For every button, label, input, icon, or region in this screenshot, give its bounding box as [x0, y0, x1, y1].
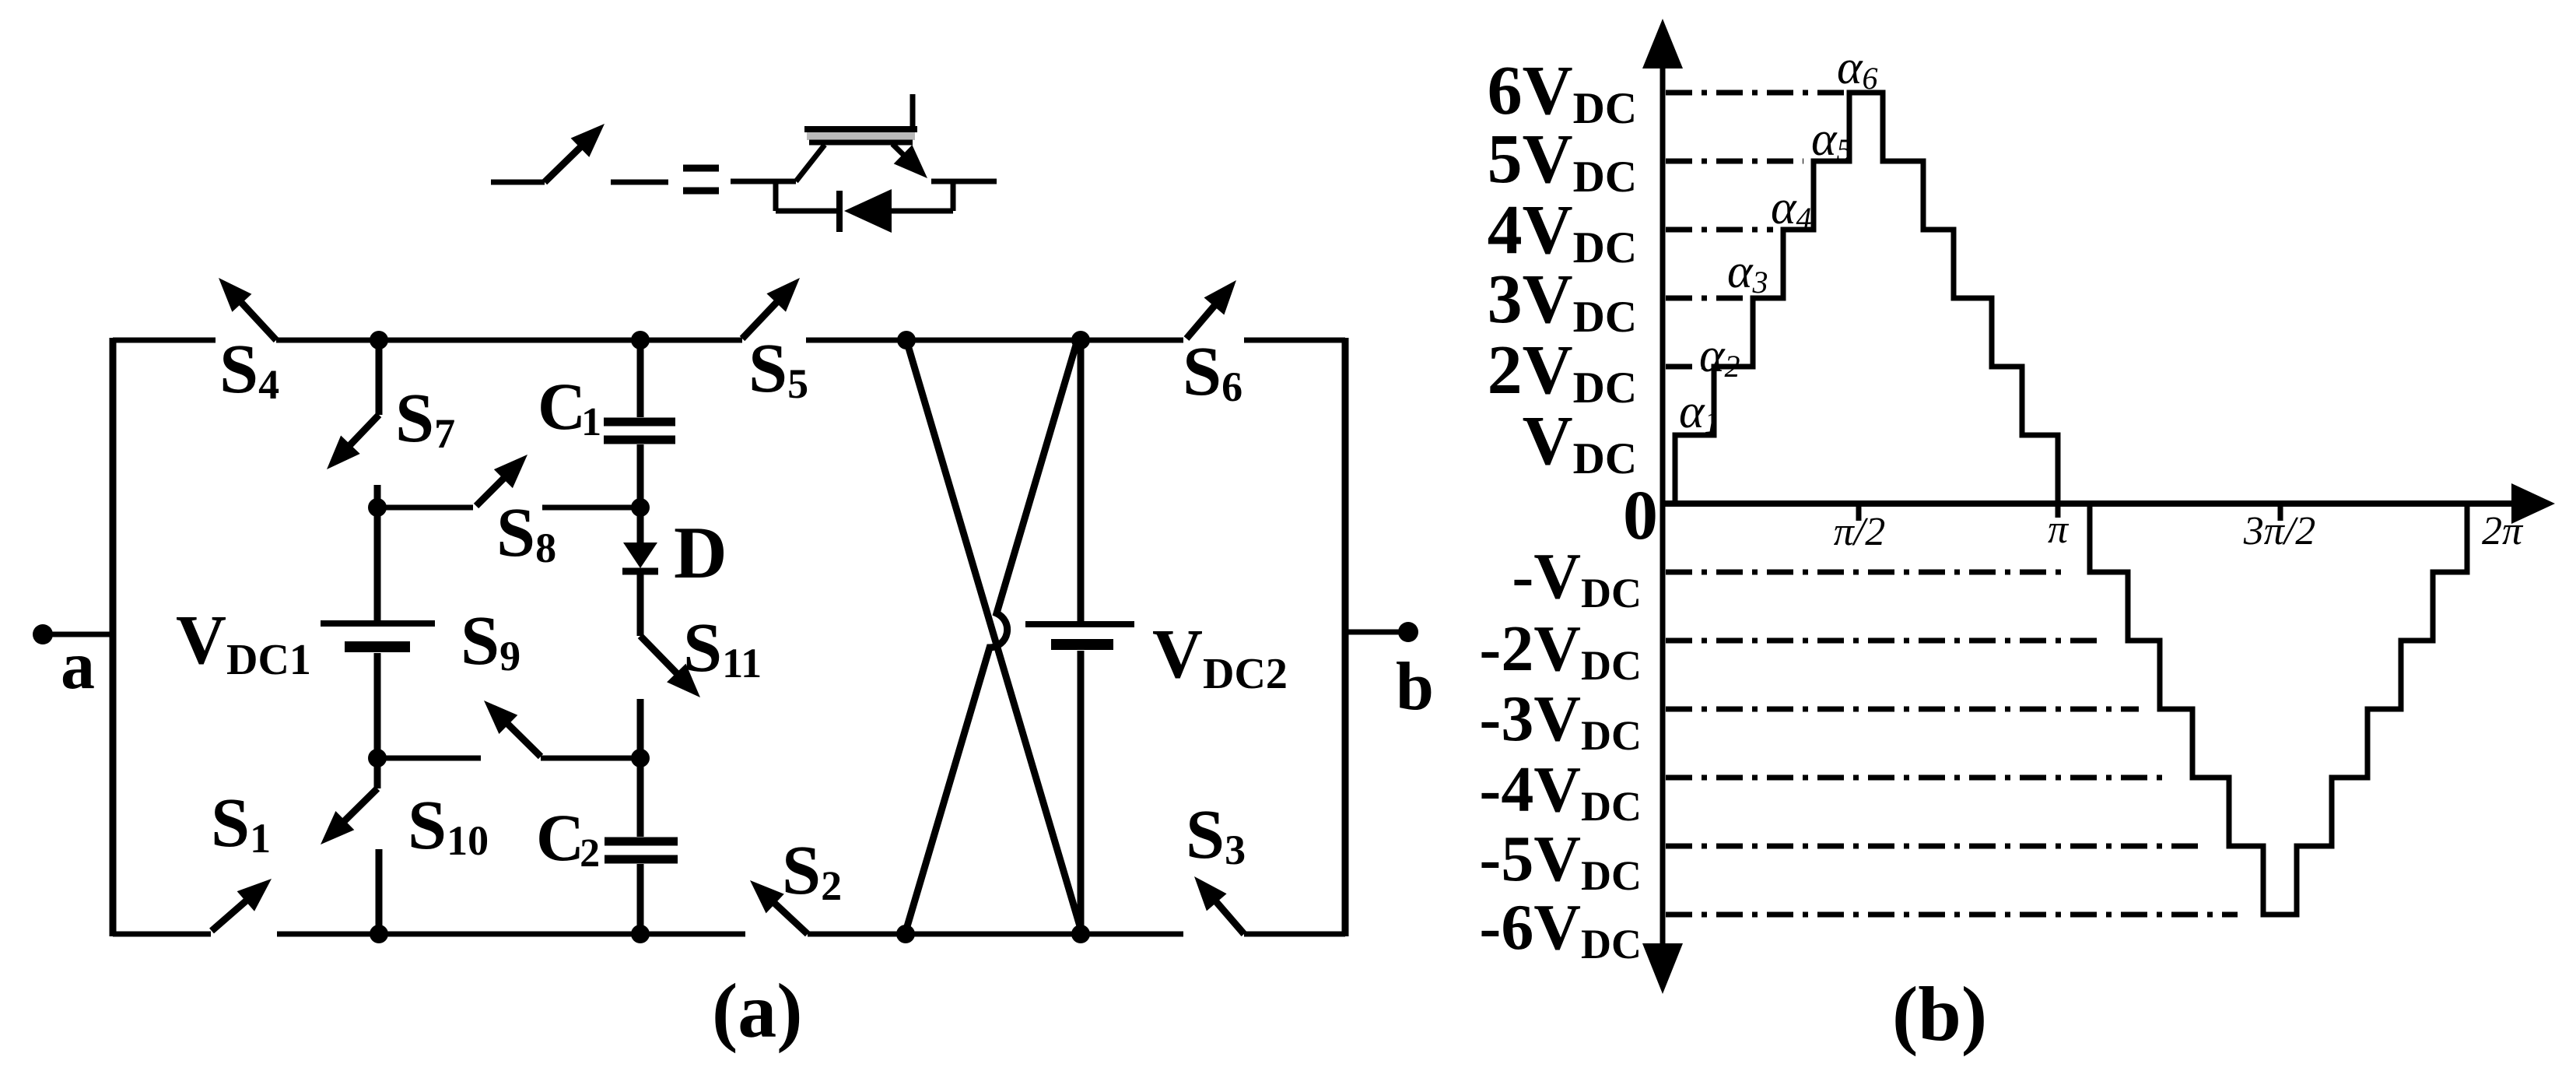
- battery VDC1: [374, 507, 381, 621]
- dash level -4VDC: [1666, 775, 2169, 781]
- svg-text:-VDC: -VDC: [1512, 540, 1642, 616]
- wire diagonal VDC2-top to S2-node (with crossover hop): [906, 337, 1078, 932]
- wire top rail left segment: [113, 338, 216, 343]
- svg-text:S4: S4: [219, 331, 279, 408]
- svg-text:-5VDC: -5VDC: [1479, 823, 1642, 899]
- svg-text:b: b: [1396, 649, 1434, 725]
- wire diagonal S5-node to VDC2-bottom: [906, 340, 1082, 934]
- switch S5: [742, 290, 788, 339]
- switch S10: [374, 758, 381, 788]
- node S9 right: [631, 749, 650, 767]
- dash level -3VDC: [1666, 707, 2139, 712]
- transistor IGBT symbol: [731, 179, 796, 184]
- dash level -6VDC: [1666, 912, 2238, 918]
- svg-text:C1: C1: [538, 369, 601, 444]
- wire bottom rail left segment: [113, 932, 211, 937]
- switch S9: [377, 756, 481, 761]
- dash level 5VDC: [1666, 159, 1803, 164]
- svg-text:π: π: [2048, 507, 2070, 552]
- dash level -2VDC: [1666, 638, 2103, 644]
- svg-text:a: a: [61, 628, 95, 704]
- switch S11: [640, 636, 689, 685]
- node S10 bottom: [370, 925, 388, 943]
- wire top rail segment S4-S5: [276, 338, 742, 343]
- switch S6: [1186, 293, 1225, 339]
- svg-text:2π: 2π: [2482, 509, 2524, 553]
- svg-text:α2: α2: [1699, 329, 1740, 384]
- wire stub node a: [43, 632, 113, 637]
- battery VDC2: [1078, 340, 1085, 622]
- switch S3: [1205, 890, 1244, 934]
- dash level 6VDC: [1666, 90, 1845, 96]
- svg-text:S6: S6: [1183, 333, 1242, 410]
- svg-text:VDC1: VDC1: [176, 602, 311, 684]
- svg-text:S2: S2: [782, 832, 842, 909]
- capacitor C2: [637, 758, 644, 837]
- svg-text:S10: S10: [408, 787, 489, 864]
- equivalence: switch symbol: [491, 180, 545, 185]
- tick pi: [2056, 504, 2061, 518]
- svg-text:0: 0: [1623, 477, 1658, 554]
- node C2 bottom: [631, 925, 650, 943]
- svg-text:D: D: [674, 511, 727, 594]
- svg-text:C2: C2: [536, 800, 600, 876]
- wire bottom rail right segment: [1244, 932, 1345, 937]
- wire top rail right segment: [1244, 338, 1345, 343]
- x axis: [1663, 500, 2515, 507]
- svg-text:α5: α5: [1811, 113, 1852, 167]
- svg-text:S9: S9: [461, 602, 520, 679]
- node C1 top: [631, 331, 650, 349]
- svg-text:-4VDC: -4VDC: [1479, 753, 1642, 830]
- node S8 left: [368, 498, 387, 517]
- dash level 3VDC: [1666, 296, 1745, 301]
- svg-text:-2VDC: -2VDC: [1479, 613, 1642, 689]
- node VDC2 bottom: [1071, 925, 1090, 943]
- switch S8: [377, 505, 473, 511]
- svg-text:α4: α4: [1771, 181, 1812, 236]
- node a: [33, 624, 53, 644]
- dash level 2VDC: [1666, 364, 1705, 370]
- svg-text:S3: S3: [1186, 796, 1246, 873]
- tick pi/2: [1856, 504, 1862, 521]
- y axis: [1660, 62, 1666, 946]
- svg-text:π/2: π/2: [1834, 510, 1886, 554]
- svg-text:α6: α6: [1837, 41, 1878, 96]
- svg-text:-3VDC: -3VDC: [1479, 683, 1642, 759]
- svg-text:S1: S1: [211, 785, 271, 862]
- wire left rail: [110, 338, 117, 936]
- node b: [1398, 622, 1418, 642]
- svg-text:3VDC: 3VDC: [1488, 261, 1637, 342]
- dash level -1VDC: [1666, 570, 2070, 575]
- tick 3pi/2: [2278, 504, 2283, 521]
- svg-text:3π/2: 3π/2: [2243, 509, 2316, 553]
- equivalence: equals sign: [683, 165, 719, 172]
- switch S4: [230, 290, 276, 340]
- diode of IGBT module: [773, 181, 779, 211]
- svg-text:-6VDC: -6VDC: [1479, 891, 1642, 967]
- dash level -5VDC: [1666, 844, 2207, 849]
- wire stub node b: [1345, 630, 1408, 635]
- svg-text:2VDC: 2VDC: [1488, 332, 1637, 413]
- node S9 left: [368, 749, 387, 767]
- dash level 4VDC: [1666, 227, 1773, 233]
- switch S2: [762, 892, 808, 934]
- diode D: [637, 507, 644, 545]
- staircase waveform: [1665, 93, 2467, 915]
- svg-text:(b): (b): [1892, 971, 1987, 1057]
- node VDC2 top: [1071, 331, 1090, 349]
- node S8 right / C1 bottom: [631, 498, 650, 517]
- wire top rail segment S5-S6: [806, 338, 1183, 343]
- svg-text:α3: α3: [1727, 245, 1768, 300]
- wire bottom rail segment S2-S3: [808, 932, 1183, 937]
- wire bottom rail segment S1-S2: [277, 932, 745, 937]
- svg-text:VDC2: VDC2: [1152, 616, 1288, 698]
- wire right rail: [1342, 338, 1349, 936]
- node X bottom left: [896, 925, 915, 943]
- node S5 right: [897, 331, 916, 349]
- capacitor C1: [637, 340, 644, 417]
- svg-text:VDC: VDC: [1523, 402, 1637, 483]
- svg-text:S5: S5: [748, 330, 808, 407]
- switch S1: [212, 890, 258, 931]
- svg-text:S7: S7: [395, 380, 455, 457]
- svg-text:S11: S11: [683, 609, 762, 686]
- switch S7: [376, 340, 383, 415]
- node top rail / S7 junction: [370, 331, 388, 349]
- svg-text:(a): (a): [712, 967, 803, 1054]
